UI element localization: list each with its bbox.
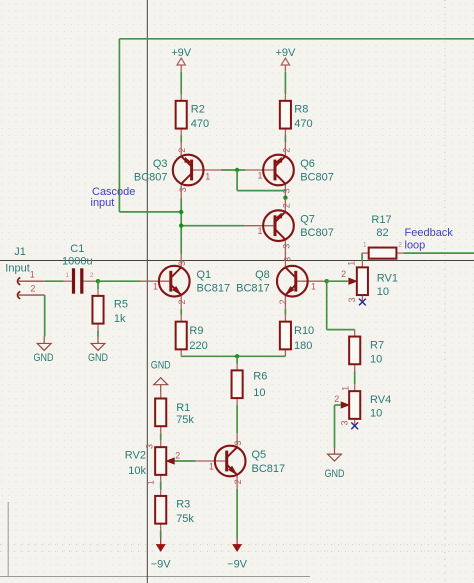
wire J1 pin2 down <box>44 295 46 336</box>
svg-text:3: 3 <box>178 187 188 192</box>
svg-text:BC807: BC807 <box>134 172 168 184</box>
axis horizontal line <box>0 260 474 262</box>
svg-text:Q5: Q5 <box>252 449 267 461</box>
wire Q5 emitter to -9V <box>236 489 238 538</box>
svg-text:10: 10 <box>377 286 389 298</box>
node junction Q8 base <box>325 279 329 283</box>
wire R7 to RV4 <box>354 371 356 384</box>
node junction Q6 collector / Q7 emitter <box>283 196 287 200</box>
transistor Q7 BC807 (PNP) <box>244 198 334 253</box>
svg-text:R5: R5 <box>114 298 128 310</box>
svg-text:1000u: 1000u <box>62 255 93 267</box>
svg-text:1: 1 <box>347 261 357 266</box>
svg-text:3: 3 <box>347 297 357 302</box>
svg-text:10k: 10k <box>128 465 146 477</box>
node junction R6 tap <box>235 354 239 358</box>
ground GND RV4 <box>325 447 345 480</box>
svg-text:180: 180 <box>294 340 312 352</box>
wire R2 to Q3 emitter <box>180 136 182 143</box>
wire Q7 base <box>181 225 244 227</box>
svg-text:BC807: BC807 <box>300 227 334 239</box>
node junction cascode wire <box>179 210 183 214</box>
wire R5 to GND <box>97 331 99 337</box>
svg-text:R1: R1 <box>176 402 190 414</box>
resistor R17 82 (horizontal) <box>362 214 404 259</box>
cursor crosshair dotted rows <box>0 545 474 552</box>
svg-text:BC817: BC817 <box>236 283 270 295</box>
svg-text:RV2: RV2 <box>125 450 146 462</box>
svg-text:−9V: −9V <box>227 559 248 571</box>
svg-text:GND: GND <box>151 359 171 371</box>
wire Q7 collector to Q8 collector <box>284 252 286 255</box>
svg-text:Q1: Q1 <box>197 269 212 281</box>
wire RV2 to R3 <box>160 482 162 489</box>
svg-text:BC807: BC807 <box>300 171 334 183</box>
svg-text:R8: R8 <box>294 103 308 115</box>
transistor Q3 BC807 (PNP, mirrored) <box>134 142 223 197</box>
power +9V left <box>171 47 192 72</box>
svg-text:RV4: RV4 <box>370 394 391 406</box>
wire RV1 top to R17 <box>361 253 363 260</box>
svg-text:Q8: Q8 <box>255 269 270 281</box>
svg-text:1: 1 <box>146 480 156 485</box>
wire C1 to Q1 base <box>98 280 140 282</box>
svg-text:1: 1 <box>258 170 263 180</box>
connector J1 Input <box>5 246 44 299</box>
transistor Q6 BC807 (PNP) <box>244 142 334 197</box>
cursor crosshair dotted column <box>444 0 446 583</box>
wire R3 to -9V <box>160 531 162 538</box>
resistor R10 180 <box>280 315 314 357</box>
resistor R5 1k <box>92 289 128 331</box>
svg-text:10: 10 <box>370 407 382 419</box>
svg-text:75k: 75k <box>176 414 194 426</box>
wire cascode input to Q3 collector node <box>119 211 181 213</box>
wire +9V to R8 <box>284 72 286 94</box>
svg-text:GND: GND <box>325 468 345 480</box>
svg-text:1: 1 <box>205 171 210 181</box>
node junction C1 / R5 / Q1 base <box>96 279 100 283</box>
svg-text:1: 1 <box>30 270 35 280</box>
svg-text:R7: R7 <box>370 339 384 351</box>
wire Q8 base node down <box>326 281 328 329</box>
label Feedback loop <box>405 227 454 251</box>
wire tap to R6 <box>236 356 238 363</box>
svg-text:3: 3 <box>177 261 187 266</box>
resistor R8 470 <box>280 94 313 136</box>
svg-text:470: 470 <box>191 118 209 130</box>
wire J1 pin1 to C1 <box>45 280 64 282</box>
svg-text:BC817: BC817 <box>197 283 231 295</box>
label Cascode input <box>91 186 136 209</box>
wire cascode input top horizontal <box>119 38 474 40</box>
power -9V left <box>151 538 172 571</box>
svg-text:GND: GND <box>88 352 108 364</box>
svg-text:2: 2 <box>30 283 35 293</box>
transistor Q8 BC817 (NPN, mirrored) <box>236 254 327 309</box>
resistor R9 220 <box>176 315 208 357</box>
transistor Q1 BC817 (NPN) <box>140 254 230 309</box>
svg-text:+9V: +9V <box>171 47 192 59</box>
svg-text:2: 2 <box>177 148 187 153</box>
svg-text:R17: R17 <box>371 214 391 226</box>
wire R1 to RV2 <box>160 433 162 440</box>
svg-text:2: 2 <box>177 299 187 304</box>
svg-text:10: 10 <box>370 353 382 365</box>
svg-text:3: 3 <box>282 257 292 262</box>
wire Q1 emitter to R9 <box>180 309 182 315</box>
svg-text:3: 3 <box>340 420 350 425</box>
transistor Q5 BC817 (NPN) <box>196 433 286 488</box>
svg-text:2: 2 <box>175 450 180 460</box>
wire Q8 base to RV1 wiper <box>327 280 348 282</box>
svg-text:3: 3 <box>282 244 292 249</box>
svg-text:1k: 1k <box>114 313 126 325</box>
svg-text:R10: R10 <box>294 325 314 337</box>
svg-text:2: 2 <box>278 299 288 304</box>
sheet border bottom-left <box>0 502 310 577</box>
wire R17 to right edge (feedback) <box>403 252 474 254</box>
svg-text:2: 2 <box>282 203 292 208</box>
svg-text:1: 1 <box>311 282 316 292</box>
axis vertical line <box>146 0 148 583</box>
ground GND (up) divider <box>151 359 171 391</box>
wire base tap down <box>236 170 238 191</box>
svg-text:2: 2 <box>233 479 243 484</box>
trimmer RV1 10 <box>341 260 398 302</box>
svg-text:Q3: Q3 <box>153 158 168 170</box>
wire R9 to R10 rail <box>181 355 285 357</box>
svg-text:1: 1 <box>341 386 351 391</box>
wire Q3 base to Q6 base <box>221 169 245 171</box>
svg-text:3: 3 <box>145 444 155 449</box>
svg-text:loop: loop <box>405 239 426 251</box>
ground GND R5 <box>88 337 108 364</box>
svg-text:2: 2 <box>282 148 292 153</box>
resistor R2 470 <box>176 94 210 136</box>
resistor R1 75k <box>155 392 194 434</box>
svg-text:Feedback: Feedback <box>405 227 454 239</box>
no-connect RV1 pin3 <box>359 299 366 306</box>
resistor R3 75k <box>155 489 194 531</box>
wire RV4 wiper down to GND <box>334 405 336 448</box>
wire base tap to Q6-Q7 node <box>237 190 285 192</box>
svg-text:BC817: BC817 <box>252 463 286 475</box>
svg-text:1: 1 <box>258 226 263 236</box>
wire cascode input vertical <box>118 39 120 212</box>
ground GND J1 <box>34 337 54 364</box>
svg-text:R2: R2 <box>191 103 205 115</box>
resistor R6 10 <box>232 363 268 405</box>
resistor R7 10 <box>349 330 384 372</box>
wire +9V to R2 <box>180 72 182 94</box>
power -9V right <box>227 538 248 571</box>
trimmer RV4 10 <box>334 384 391 426</box>
wire Q8 emitter to R10 <box>284 309 286 315</box>
svg-text:2: 2 <box>341 269 346 279</box>
power +9V right <box>275 47 296 72</box>
svg-text:+9V: +9V <box>275 47 296 59</box>
svg-text:82: 82 <box>376 227 388 239</box>
svg-text:GND: GND <box>34 352 54 364</box>
svg-text:Input: Input <box>5 263 29 275</box>
svg-text:Q7: Q7 <box>300 214 315 226</box>
svg-text:input: input <box>91 197 115 209</box>
svg-text:R9: R9 <box>189 325 203 337</box>
svg-text:−9V: −9V <box>151 559 172 571</box>
svg-text:Q6: Q6 <box>300 158 315 170</box>
node junction Q3/Q6 base tap <box>235 168 239 172</box>
svg-text:RV1: RV1 <box>377 273 398 285</box>
svg-text:1: 1 <box>153 282 158 292</box>
svg-text:10: 10 <box>253 387 265 399</box>
svg-text:220: 220 <box>189 340 207 352</box>
wire R6 to Q5 collector <box>236 405 238 433</box>
wire R8 to Q6 emitter <box>284 136 286 143</box>
svg-text:3: 3 <box>233 441 243 446</box>
no-connect RV4 pin3 <box>351 422 358 429</box>
wire RV2 wiper to Q5 base <box>175 460 196 462</box>
capacitor C1 1000u <box>62 243 98 293</box>
node junction Q7 base tap <box>179 223 183 227</box>
trimmer RV2 10k <box>125 440 181 485</box>
svg-text:2: 2 <box>334 394 339 404</box>
svg-text:R3: R3 <box>176 499 190 511</box>
wire to R7 top <box>327 329 355 331</box>
svg-text:C1: C1 <box>70 243 84 255</box>
wire junction to R5 <box>97 281 99 289</box>
svg-text:1: 1 <box>209 461 214 471</box>
wire RV4 wiper left <box>335 404 342 406</box>
wire Q3 collector to Q1 collector <box>180 198 182 254</box>
svg-text:75k: 75k <box>176 513 194 525</box>
svg-text:J1: J1 <box>14 246 26 258</box>
svg-text:470: 470 <box>294 118 312 130</box>
svg-text:R6: R6 <box>253 371 267 383</box>
